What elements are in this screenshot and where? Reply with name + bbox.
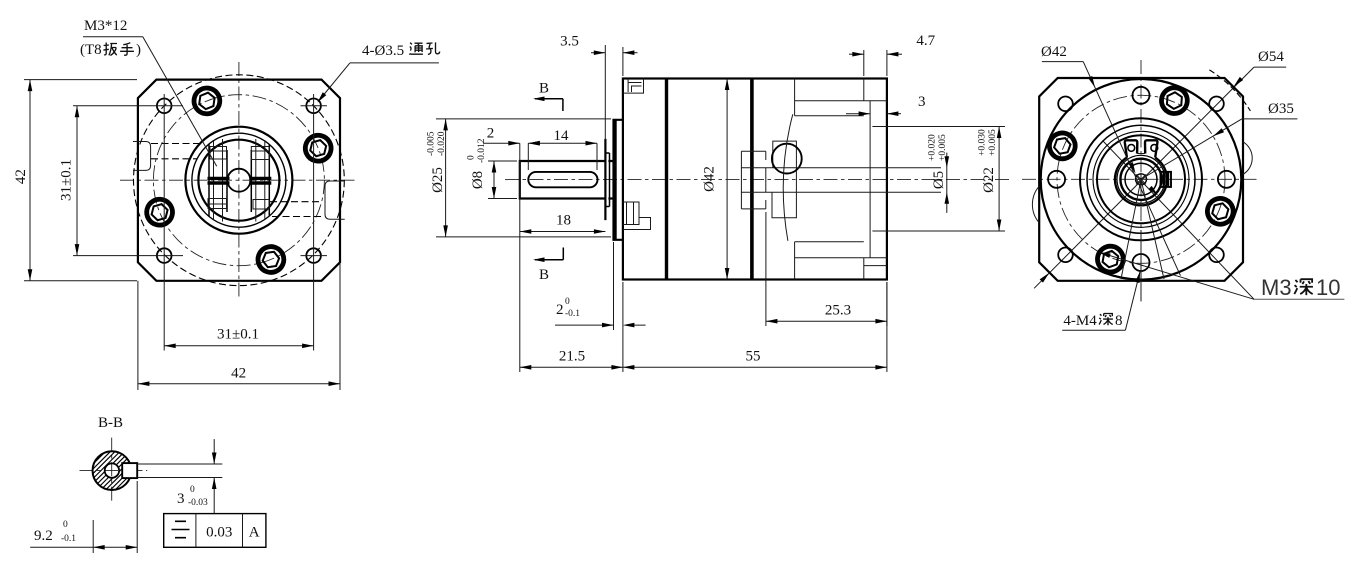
glyph shen big <box>1294 279 1313 295</box>
shaft section centerline horizontal <box>80 470 148 472</box>
dim 3 <box>846 113 870 115</box>
dim 42 vertical <box>29 80 31 281</box>
svg-text:Ø42: Ø42 <box>702 166 718 192</box>
svg-text:Ø54: Ø54 <box>1258 49 1284 65</box>
dim phi8 <box>488 160 517 162</box>
coupling right slot verticals <box>250 150 252 212</box>
corner hole BR <box>306 248 321 263</box>
corner hole BL <box>157 248 172 263</box>
svg-text:25.3: 25.3 <box>825 303 851 319</box>
bolt circle phi35 dash-dot <box>1057 95 1225 263</box>
planet gear circle <box>772 144 802 174</box>
M4 hole W <box>1048 171 1065 188</box>
phi5 bore lines <box>796 167 941 169</box>
dim 18 <box>519 143 521 372</box>
coupling cross bars right <box>249 177 271 180</box>
svg-text:(T8: (T8 <box>80 42 102 58</box>
svg-text:3: 3 <box>177 491 185 507</box>
svg-text:-0.1: -0.1 <box>61 534 76 544</box>
svg-text:Ø42: Ø42 <box>1041 44 1067 60</box>
ring r48 <box>1093 131 1189 227</box>
shaft section outer circle <box>93 451 132 490</box>
hex socket screw bottom M3 <box>254 243 288 277</box>
center mark <box>1135 173 1148 186</box>
M3 second leader diagonal TL-BR <box>1103 141 1254 299</box>
svg-text:8: 8 <box>1115 313 1123 329</box>
extension line vert left holes <box>163 94 165 351</box>
coupling top-left block <box>210 147 227 160</box>
small arrow on diagonal <box>1148 186 1159 197</box>
svg-text:2: 2 <box>556 302 564 318</box>
pilot boss phi25 <box>610 120 623 240</box>
planet pin box bottom <box>772 192 796 217</box>
hex socket screw SE <box>1204 195 1236 227</box>
svg-text:9.2: 9.2 <box>34 528 53 544</box>
top connector tab <box>623 79 644 94</box>
svg-text:3: 3 <box>918 94 926 110</box>
rear housing bottom lines <box>795 242 887 280</box>
glyph tong <box>409 43 423 55</box>
svg-text:18: 18 <box>556 213 571 229</box>
horizontal centerline <box>120 179 358 181</box>
extension line horiz bottom holes <box>73 255 183 257</box>
fan line right <box>1141 179 1164 279</box>
hex socket screw SW <box>1095 244 1125 274</box>
flange outline chamfered square <box>138 80 340 281</box>
inner circle r24 <box>1117 155 1165 203</box>
center shaft hole <box>227 169 250 192</box>
left edge bump <box>1032 186 1039 223</box>
leader 4-M4 <box>1125 271 1140 330</box>
coupling bottom-right block <box>253 200 269 210</box>
leader M3*12 <box>83 36 143 38</box>
rear plate inner line <box>864 265 887 267</box>
phi54 arrow BL <box>1040 271 1051 282</box>
feature control frame <box>164 514 266 548</box>
section joint thick line 2 <box>750 79 754 280</box>
inner circle r16 <box>1125 163 1157 195</box>
dim 31 bottom <box>164 345 313 347</box>
retaining ring left lug <box>1125 140 1138 157</box>
dim phi5 <box>946 153 948 213</box>
dim 42 bottom <box>137 281 139 390</box>
S hole centerline <box>1140 230 1142 301</box>
section joint thick line 1 <box>665 79 668 280</box>
dim 4.7 <box>863 50 865 76</box>
planet pin box top <box>773 141 797 168</box>
dim phi25 <box>436 118 611 120</box>
hex socket screw NW <box>1046 129 1079 162</box>
shaft bore circle <box>105 463 119 477</box>
dim 2 keyway <box>527 143 529 170</box>
key section square <box>122 463 137 478</box>
svg-text:B: B <box>539 81 549 97</box>
corner hole TR <box>306 99 321 114</box>
coupling left slot verticals <box>208 144 210 217</box>
svg-text:+0.030: +0.030 <box>978 129 988 156</box>
glyph shen small <box>1099 314 1113 326</box>
hex socket screw NE <box>1161 87 1189 115</box>
svg-text:31±0.1: 31±0.1 <box>59 159 75 201</box>
glyph ban <box>103 43 117 56</box>
output shaft <box>520 140 606 219</box>
svg-text:42: 42 <box>13 169 29 184</box>
svg-text:21.5: 21.5 <box>559 349 585 365</box>
svg-text:0: 0 <box>467 155 477 160</box>
svg-text:Ø35: Ø35 <box>1268 101 1294 117</box>
carrier section block <box>741 151 765 209</box>
dim 21.5 and 55 <box>520 366 623 368</box>
center hole <box>1136 174 1147 185</box>
phi54 dimension diagonal TR-BL <box>1034 67 1254 288</box>
symmetry symbol <box>172 521 190 537</box>
svg-text:): ) <box>136 42 141 58</box>
bottom connector tab <box>623 202 651 230</box>
extension line horiz top holes <box>73 105 183 107</box>
svg-text:55: 55 <box>746 349 761 365</box>
svg-text:Ø5: Ø5 <box>931 171 947 189</box>
ring r44 <box>1097 135 1185 223</box>
svg-text:-0.03: -0.03 <box>188 498 208 508</box>
hex socket screw top M3 <box>192 86 221 115</box>
label T8 wrench <box>80 42 141 58</box>
svg-text:0: 0 <box>565 297 570 307</box>
svg-text:-0.020: -0.020 <box>437 131 447 156</box>
svg-text:31±0.1: 31±0.1 <box>217 327 259 343</box>
coupling bottom-left block <box>208 199 227 209</box>
key slot rect <box>1161 172 1172 187</box>
leader phi42 <box>1083 62 1180 276</box>
boss face thick line <box>613 120 617 240</box>
extension lines 42 left <box>24 79 137 81</box>
corner hole TR <box>1209 97 1224 112</box>
key top line extension <box>137 463 222 465</box>
svg-text:2: 2 <box>487 126 495 142</box>
gear flank curve <box>783 114 793 241</box>
extension line vert right holes <box>313 94 315 351</box>
glyph kong <box>426 42 440 54</box>
rear spigot line <box>869 101 871 258</box>
dim 14 <box>596 143 598 170</box>
horizontal centerline <box>1022 178 1258 180</box>
middle ring circle <box>192 133 286 227</box>
svg-text:A: A <box>249 525 260 541</box>
dim 31 vertical <box>76 106 78 256</box>
svg-text:B-B: B-B <box>98 415 123 431</box>
dim 3.5 <box>604 45 606 140</box>
dim 25.3 <box>765 212 767 326</box>
outer boss circle <box>185 127 292 234</box>
body circle phi42 <box>1041 79 1242 280</box>
label 4-M4 deep 8 <box>1063 313 1122 329</box>
lug hole right <box>1151 145 1158 152</box>
svg-text:Ø25: Ø25 <box>430 167 446 193</box>
svg-text:-0.1: -0.1 <box>565 309 580 319</box>
dim 3 line upper <box>213 439 215 464</box>
svg-text:+0.005: +0.005 <box>938 134 948 161</box>
left edge tab <box>133 142 151 171</box>
lug bridge <box>1137 153 1145 155</box>
svg-text:B: B <box>539 267 549 283</box>
svg-text:M3: M3 <box>1261 275 1292 300</box>
rear flange chamfered square <box>1039 78 1243 281</box>
coupling cross bars left <box>208 177 230 180</box>
leader M3 <box>1099 252 1254 299</box>
svg-text:42: 42 <box>231 366 246 382</box>
hex socket screw left M3 <box>144 197 175 228</box>
right edge tab <box>325 181 345 219</box>
rear housing top lines <box>795 79 887 116</box>
svg-text:M3*12: M3*12 <box>84 18 127 34</box>
svg-text:0: 0 <box>63 520 68 530</box>
coupling top-right block <box>251 147 269 160</box>
keyway slot <box>528 172 597 187</box>
label 4-phi3.5 through hole <box>362 42 440 59</box>
svg-text:+0.005: +0.005 <box>988 129 998 156</box>
dim phi42 body <box>726 79 728 280</box>
dim 3 line lower with frame arrow <box>213 478 215 514</box>
phi54 corner arc TR <box>1209 70 1250 111</box>
phi54 arrow TR <box>1232 77 1243 88</box>
carrier center square <box>766 168 797 193</box>
shaft section centerline vertical <box>111 438 113 504</box>
ring r61 <box>1080 118 1202 240</box>
bearing bore circle <box>1120 159 1161 200</box>
svg-text:-0.005: -0.005 <box>427 131 437 156</box>
retaining ring right lug <box>1145 140 1157 157</box>
svg-text:4-Ø3.5: 4-Ø3.5 <box>362 43 404 59</box>
lug hole left <box>1128 145 1135 152</box>
svg-text:0.03: 0.03 <box>206 525 232 541</box>
svg-text:Ø8: Ø8 <box>470 171 486 189</box>
hidden lines across bore <box>151 143 199 145</box>
vertical centerline <box>238 62 240 297</box>
retaining ring body <box>1115 158 1167 206</box>
gearbox body outline <box>623 79 887 280</box>
small arrow on leader <box>1129 162 1138 174</box>
M4 hole E <box>1218 171 1235 188</box>
svg-text:3.5: 3.5 <box>560 34 579 50</box>
vertical centerline <box>1140 60 1142 302</box>
dim phi22 <box>998 127 1000 232</box>
corner hole TL <box>1058 97 1073 112</box>
corner hole TL <box>157 99 172 114</box>
svg-text:4.7: 4.7 <box>916 33 935 49</box>
svg-text:4-M4: 4-M4 <box>1063 313 1097 329</box>
hidden max-diameter circle <box>134 75 345 286</box>
key bottom line extension <box>137 477 222 479</box>
leader phi35 <box>1141 119 1242 179</box>
M4 hole N <box>1133 87 1150 104</box>
svg-text:Ø22: Ø22 <box>981 167 997 193</box>
phi22 spigot lines <box>872 126 1005 128</box>
inner bore circle <box>198 140 279 221</box>
svg-text:0: 0 <box>190 485 195 495</box>
right edge bump <box>1243 142 1252 175</box>
svg-text:14: 14 <box>554 128 570 144</box>
svg-text:-0.012: -0.012 <box>477 138 487 163</box>
M4 hole S <box>1133 254 1150 271</box>
fan line left <box>1121 179 1141 279</box>
svg-text:10: 10 <box>1316 275 1340 300</box>
svg-text:+0.020: +0.020 <box>928 134 938 161</box>
ring r54 <box>1087 125 1195 233</box>
corner hole BL <box>1058 248 1073 263</box>
glyph shou <box>120 43 134 56</box>
bolt circle dash-dot <box>153 95 324 266</box>
label M3 deep 10 <box>1261 275 1340 300</box>
dim 2-0.1 <box>555 324 614 326</box>
hatching <box>93 451 132 490</box>
hex socket screw right M3 <box>303 133 334 164</box>
main centerline <box>505 179 1012 181</box>
corner hole BR <box>1209 248 1224 263</box>
shaft shoulder <box>605 153 609 207</box>
